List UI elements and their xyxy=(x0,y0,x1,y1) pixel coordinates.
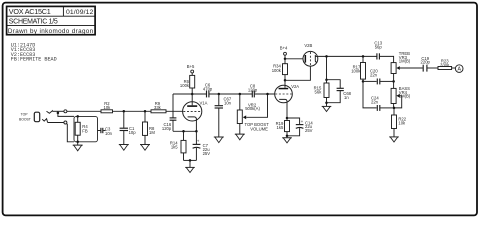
potentiometer VR3 TREB xyxy=(391,51,411,81)
shield box around R4 xyxy=(74,116,98,141)
wire rail R2 to R9 xyxy=(113,110,152,112)
wire main input rail xyxy=(67,110,101,112)
svg-text:10n: 10n xyxy=(224,101,232,106)
wire rung2 C24 right xyxy=(380,107,394,109)
svg-text:1k5: 1k5 xyxy=(171,144,178,149)
node C67 tap xyxy=(218,93,221,96)
wire cathode rail xyxy=(173,130,197,132)
svg-text:470p: 470p xyxy=(203,86,213,91)
triode V2A xyxy=(275,84,300,103)
wire R23 to node A xyxy=(452,67,456,69)
ground under R8 xyxy=(140,145,150,151)
node R17 tap xyxy=(362,55,365,58)
node V1A plate xyxy=(191,93,194,96)
svg-text:VOLUME: VOLUME xyxy=(250,126,268,131)
capacitor C19 xyxy=(421,56,431,72)
svg-text:120p: 120p xyxy=(248,87,258,92)
parts list note xyxy=(11,42,57,62)
svg-text:B+4: B+4 xyxy=(280,45,288,50)
svg-text:33k: 33k xyxy=(154,105,162,110)
svg-text:VOX AC15C1: VOX AC15C1 xyxy=(9,7,51,16)
node R14 tap xyxy=(182,130,185,133)
svg-text:220p: 220p xyxy=(421,60,431,65)
svg-text:BOOST: BOOST xyxy=(19,117,31,121)
power node B+5 xyxy=(187,64,195,76)
triode V1A xyxy=(183,100,208,121)
resistor R4 (FB) xyxy=(75,115,88,143)
ground under VR2 xyxy=(235,134,245,140)
capacitor C67 xyxy=(215,94,232,137)
resistor R23 xyxy=(438,59,452,70)
svg-text:56p: 56p xyxy=(375,44,383,49)
wire B+4 to V2B plate xyxy=(285,58,303,60)
svg-text:1k5: 1k5 xyxy=(277,125,284,130)
node C7 tap xyxy=(195,130,198,133)
power node B+4 xyxy=(280,45,288,59)
svg-text:10n: 10n xyxy=(105,131,113,136)
capacitor C20 xyxy=(370,68,380,84)
node R8 tap xyxy=(144,110,147,113)
svg-text:10k: 10k xyxy=(398,120,406,125)
wire plate to V2B grid xyxy=(285,66,310,80)
capacitor C68 xyxy=(327,80,352,103)
capacitor C3 xyxy=(98,127,113,136)
ground under R15 xyxy=(322,106,332,111)
node B+4 split xyxy=(284,58,287,61)
node A xyxy=(455,65,463,73)
ground under C1 xyxy=(119,145,129,151)
svg-text:25V: 25V xyxy=(203,151,211,156)
wire jack ring to shield box xyxy=(67,124,75,142)
svg-text:A: A xyxy=(458,67,462,73)
resistor R34 xyxy=(272,59,288,81)
svg-text:1M: 1M xyxy=(149,130,155,135)
svg-text:22n: 22n xyxy=(370,72,378,77)
wire plate rail to C6 xyxy=(173,93,206,95)
capacitor C1 xyxy=(120,111,137,144)
wire C13 to treble pot xyxy=(380,56,394,62)
svg-text:FB:FERRITE BEAD: FB:FERRITE BEAD xyxy=(11,57,57,63)
resistor R22 xyxy=(392,108,407,137)
capacitor C24 xyxy=(371,95,380,111)
wire rung1 C20 xyxy=(363,80,377,82)
resistor R2 xyxy=(101,101,113,113)
wire TREB bottom to BASS xyxy=(393,81,395,88)
svg-text:Drawn by inkomodo dragon: Drawn by inkomodo dragon xyxy=(8,28,94,35)
title block xyxy=(7,6,96,35)
capacitor C13 xyxy=(374,40,382,59)
capacitor C6 xyxy=(203,83,213,98)
svg-text:1n: 1n xyxy=(344,95,349,100)
svg-text:120p: 120p xyxy=(162,126,172,131)
svg-text:TOP: TOP xyxy=(21,112,29,116)
svg-text:500k(A): 500k(A) xyxy=(245,106,260,111)
capacitor C8 xyxy=(248,84,258,98)
svg-text:V1A: V1A xyxy=(200,100,208,105)
node R17 bottom junction xyxy=(362,80,365,83)
ground under V1A cathode xyxy=(185,160,195,172)
wire V2A cathode lead xyxy=(286,101,288,118)
node VR2 wiper junction xyxy=(266,93,269,96)
input jack label TOP BOOST xyxy=(19,112,31,121)
resistor R14 xyxy=(170,131,186,160)
capacitor C16 xyxy=(162,94,177,131)
svg-text:V2A: V2A xyxy=(291,84,299,89)
svg-text:100k: 100k xyxy=(180,83,190,88)
node cathode ground junction xyxy=(189,159,192,162)
svg-text:330k: 330k xyxy=(440,62,450,67)
resistor R8 xyxy=(143,111,156,144)
wire V1A plate lead xyxy=(191,94,193,105)
potentiometer VR4 BASS xyxy=(391,86,411,108)
node rung2 / R22 xyxy=(393,107,396,110)
resistor R9 xyxy=(151,101,166,113)
wire TREB wiper to C19 xyxy=(400,67,423,69)
wire V2A plate lead xyxy=(284,80,286,88)
wire left rail down to rung2 xyxy=(363,81,377,108)
svg-text:25V: 25V xyxy=(305,128,313,133)
svg-text:10p: 10p xyxy=(129,130,137,135)
svg-text:V2B: V2B xyxy=(304,43,312,48)
svg-text:56k: 56k xyxy=(315,90,323,95)
potentiometer VR2 xyxy=(237,94,269,134)
svg-text:SCHEMATIC 1/5: SCHEMATIC 1/5 xyxy=(9,19,58,26)
node C1 tap xyxy=(123,110,126,113)
resistor R15 xyxy=(314,56,329,106)
wire C19 to R23 xyxy=(427,67,438,69)
svg-text:10k: 10k xyxy=(104,105,112,110)
capacitor C7 electrolytic xyxy=(193,131,211,160)
svg-text:1M(B): 1M(B) xyxy=(399,93,411,98)
node TREB bottom junction xyxy=(392,80,395,83)
wire jack tip drop xyxy=(58,111,74,116)
ground under R19 xyxy=(282,136,292,143)
node V2A plate xyxy=(284,79,287,82)
input jack J1 xyxy=(34,110,67,124)
svg-text:B+5: B+5 xyxy=(187,64,195,69)
resistor R6 xyxy=(180,75,195,94)
ground under C67 xyxy=(214,137,224,143)
capacitor C14 electrolytic xyxy=(287,118,313,136)
wire C8 to V2A grid xyxy=(255,93,275,95)
triode V2B xyxy=(303,43,318,66)
ground under R22 xyxy=(389,137,399,142)
wire cathode bottom rail xyxy=(184,159,197,161)
svg-text:01/09/12: 01/09/12 xyxy=(66,9,94,16)
wire C6 to C8 xyxy=(209,93,252,95)
resistor R17 xyxy=(351,56,365,81)
node VR2 tap xyxy=(239,93,242,96)
wire grid V1A xyxy=(166,110,183,112)
wire V2B cathode rail xyxy=(318,55,377,57)
resistor R19 xyxy=(276,118,290,136)
wire V1A cathode lead xyxy=(195,119,197,132)
ground under R4 xyxy=(73,142,83,151)
svg-text:100k: 100k xyxy=(351,69,361,74)
svg-text:FB: FB xyxy=(82,128,88,133)
svg-text:100k: 100k xyxy=(272,68,282,73)
svg-text:1M(B): 1M(B) xyxy=(399,58,411,63)
node R15 tap xyxy=(325,55,328,58)
svg-text:22n: 22n xyxy=(371,99,379,104)
